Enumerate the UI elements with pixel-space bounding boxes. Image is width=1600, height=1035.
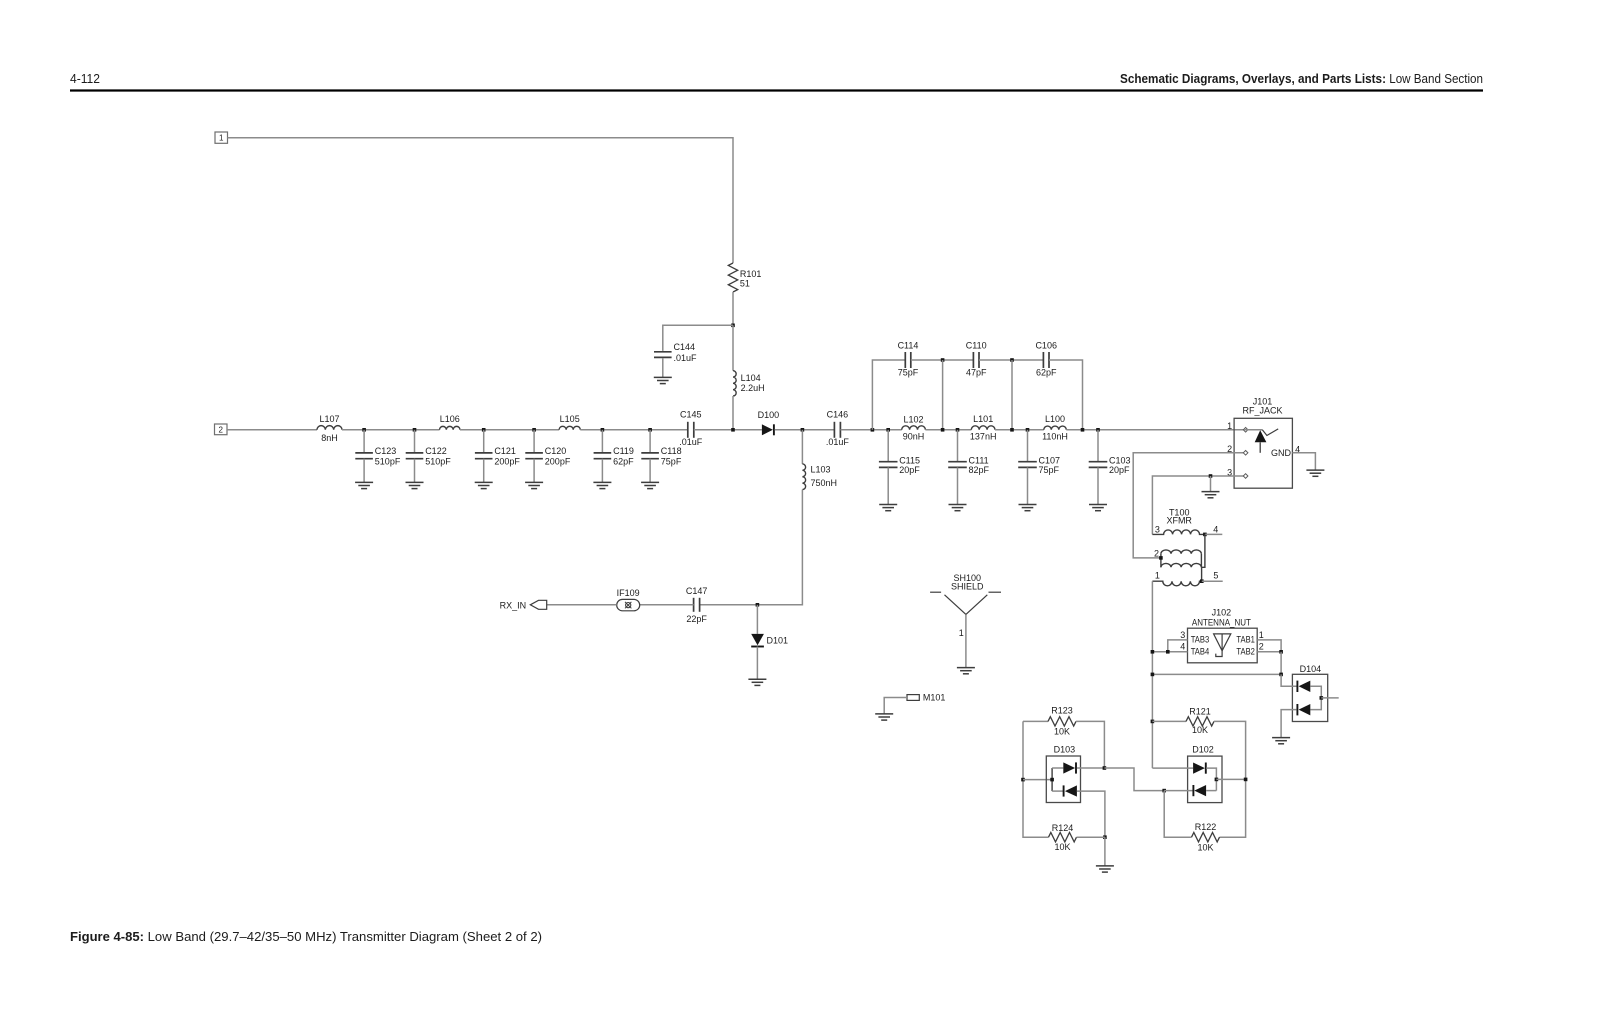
node C107 tap [1026,428,1030,432]
node main/branch C [1081,428,1085,432]
capacitor C146 [833,422,835,438]
node R122 left join [1162,789,1166,793]
wire [942,360,944,430]
wire [363,459,365,483]
svg-text:10K: 10K [1054,842,1070,852]
port RX_IN [530,600,546,609]
diode D103 top [1063,762,1075,773]
node pin 2 [1159,556,1163,560]
ground [748,678,766,680]
svg-text:C111: C111 [969,455,989,465]
wire [957,430,959,462]
wire [957,467,959,504]
node top branch B [1010,358,1014,362]
wire [1292,453,1315,470]
node TAB4 net [1151,650,1155,654]
capacitor C144 [654,351,672,353]
wire [840,429,901,431]
wire [1077,767,1105,769]
svg-text:10K: 10K [1197,843,1213,853]
wire [1066,429,1244,431]
wire [732,292,734,325]
ground [355,481,373,483]
svg-text:L107: L107 [319,414,339,424]
node D100/L103 junction [801,428,805,432]
ground [1202,491,1220,493]
svg-text:C118: C118 [661,446,682,456]
svg-text:D101: D101 [767,636,789,646]
capacitor C110 [972,352,974,368]
svg-text:L105: L105 [560,414,580,424]
capacitor C145 [687,422,689,438]
svg-text:.01uF: .01uF [679,437,703,447]
ground [1306,469,1324,471]
node top branch A [941,358,945,362]
capacitor C122 [406,452,424,454]
wire [1133,453,1244,558]
wire [887,467,889,504]
svg-text:8nH: 8nH [321,433,338,443]
node junction R101/C144/L104 [731,324,735,328]
svg-text:L102: L102 [903,414,923,424]
wire [911,359,974,361]
wire [663,325,733,351]
wire [1152,673,1281,675]
wire [1281,710,1297,738]
wire [227,429,317,431]
wire [756,647,758,680]
svg-text:1: 1 [219,134,224,143]
connector J101 box [1234,418,1292,488]
svg-text:C106: C106 [1035,341,1057,351]
svg-text:200pF: 200pF [545,456,571,466]
jack switch contact [1262,429,1278,436]
svg-text:22pF: 22pF [686,614,707,624]
capacitor C121 [475,452,493,454]
svg-text:1: 1 [1155,571,1160,581]
svg-text:L103: L103 [811,464,831,474]
pin 2 contact [1243,451,1248,456]
svg-text:C119: C119 [613,446,634,456]
svg-text:TAB2: TAB2 [1236,646,1255,656]
wire [1104,768,1164,791]
wire [979,359,1043,361]
connector 1 [215,132,228,143]
svg-text:L101: L101 [973,414,993,424]
resistor R121 [1186,717,1214,726]
ground [949,504,967,506]
wire [640,604,694,606]
capacitor C147 [693,598,695,612]
svg-text:4: 4 [1180,641,1185,651]
node D103/R123 join [1103,766,1107,770]
wire [1281,674,1297,686]
inductor L101 [971,426,995,430]
wire [700,490,803,605]
node pin3 ground tap [1209,474,1213,478]
wire [1049,360,1083,430]
wire [887,430,889,462]
node D101 tap [756,603,760,607]
svg-text:C107: C107 [1039,455,1061,465]
wire [601,430,603,453]
wire [1216,778,1245,780]
svg-text:2: 2 [218,425,223,434]
wire [1202,580,1223,582]
node antenna net right [1279,673,1283,677]
winding 2 right bracket [1200,554,1202,568]
svg-text:75pF: 75pF [898,368,919,378]
inductor L105 [559,426,580,430]
svg-text:3: 3 [1180,630,1185,640]
node R121/R122 junction [1244,778,1248,782]
wire [1104,837,1106,866]
svg-text:.01uF: .01uF [674,353,698,363]
svg-text:R101: R101 [740,269,762,279]
node C118 tap [648,428,652,432]
capacitor C106 [1042,352,1044,368]
inductor L106 [440,426,461,429]
svg-text:750nH: 750nH [811,478,838,488]
resistor R124 [1049,833,1077,842]
wire [1152,767,1193,769]
ground [879,504,897,506]
connector J102 box [1188,628,1258,663]
wire [1205,533,1222,535]
diode pack D104 box [1292,674,1327,721]
wire [1210,476,1212,492]
svg-text:M101: M101 [923,693,946,703]
node R121 tap [1151,720,1155,724]
svg-text:82pF: 82pF [969,465,990,475]
winding 1-5 [1152,581,1201,586]
wire [801,430,803,464]
diode pack D102 box [1188,756,1222,803]
svg-text:1: 1 [1227,421,1232,431]
svg-text:C122: C122 [425,446,447,456]
wire [1152,476,1244,534]
wire [1280,652,1282,675]
wire [1152,720,1186,722]
wire [1206,768,1216,791]
wire [1097,430,1099,462]
jack arrow [1244,429,1262,431]
svg-text:62pF: 62pF [613,456,634,466]
wire [1023,779,1052,781]
svg-text:J102: J102 [1212,607,1232,617]
wire [1164,791,1191,838]
wire [1164,790,1193,792]
wire [872,360,905,430]
wire [1257,651,1281,653]
node C123 tap [362,428,366,432]
diode pack D103 box [1046,756,1080,803]
diode D102 top [1193,763,1205,774]
wire [965,614,967,667]
svg-text:10K: 10K [1054,726,1070,736]
resistor R101 [728,263,737,292]
svg-text:10K: 10K [1192,725,1208,735]
svg-text:R121: R121 [1189,707,1211,717]
wire [601,459,603,483]
svg-text:510pF: 510pF [425,456,451,466]
svg-text:XFMR: XFMR [1166,516,1192,526]
svg-text:L106: L106 [440,414,460,424]
svg-text:R123: R123 [1051,706,1073,716]
header rule [70,89,1483,91]
ground [654,376,672,378]
ground [1019,504,1037,506]
ground [1272,737,1290,739]
svg-text:200pF: 200pF [494,456,520,466]
wire [1077,791,1105,837]
wire [649,459,651,483]
svg-text:4-112: 4-112 [70,71,100,86]
svg-text:L104: L104 [741,373,761,383]
wire [460,429,559,431]
wire [1023,720,1048,722]
svg-text:Figure 4-85: Low Band (29.7–42: Figure 4-85: Low Band (29.7–42/35–50 MHz… [70,929,542,944]
pin 3 contact [1243,474,1248,479]
svg-text:C147: C147 [686,586,708,596]
svg-text:C103: C103 [1109,455,1131,465]
svg-text:R122: R122 [1195,822,1217,832]
svg-text:C146: C146 [827,409,849,419]
wire [1097,467,1099,504]
node main/branch B [1010,428,1014,432]
svg-text:90nH: 90nH [903,431,925,441]
wire [732,325,734,370]
wire [649,430,651,453]
node pin 5 [1200,579,1204,583]
capacitor C114 [904,352,906,368]
winding interconnect lower [1201,567,1203,581]
node TAB3/TAB4 join [1166,650,1170,654]
svg-text:75pF: 75pF [1039,465,1060,475]
capacitor C103 [1089,461,1108,463]
capacitor C111 [948,461,967,463]
svg-text:D103: D103 [1054,745,1076,755]
svg-text:51: 51 [740,279,750,289]
svg-text:2: 2 [1259,641,1264,651]
svg-text:Schematic Diagrams, Overlays,: Schematic Diagrams, Overlays, and Parts … [1120,71,1483,86]
winding 2 row 1 [1161,550,1201,554]
svg-text:GND: GND [1271,448,1292,458]
svg-text:5: 5 [1213,570,1218,580]
svg-text:ANTENNA_NUT: ANTENNA_NUT [1192,617,1251,627]
inductor L103 [802,464,805,490]
wire [1310,686,1321,709]
node C121 tap [482,428,486,432]
svg-text:137nH: 137nH [970,431,997,441]
inductor L100 [1044,426,1067,430]
node pin 4 [1203,533,1207,537]
ferrite bead IF109 [617,599,640,610]
wire [995,429,1044,431]
ground [1089,504,1107,506]
wire [925,429,971,431]
ground [525,481,543,483]
svg-text:R124: R124 [1052,823,1074,833]
capacitor C123 [355,452,373,454]
winding interconnect [1201,534,1205,567]
wire [363,430,365,453]
svg-text:IF109: IF109 [617,588,640,598]
svg-text:RX_IN: RX_IN [500,600,527,610]
antenna symbol [1214,634,1231,651]
node C120 tap [532,428,536,432]
ground [406,481,424,483]
inductor L107 [317,426,342,430]
node R124 join [1103,835,1107,839]
wire [1076,721,1104,768]
wire [228,138,734,263]
wire [414,430,416,453]
capacitor C120 [525,452,543,454]
wire [533,430,535,453]
node TAB1/TAB2 join [1279,650,1283,654]
svg-text:62pF: 62pF [1036,368,1057,378]
wire [756,605,758,634]
shield SH100 [930,591,941,593]
wire [662,358,664,377]
resistor R122 [1192,833,1220,842]
wire [1257,640,1281,652]
ground [475,481,493,483]
svg-text:C120: C120 [545,446,567,456]
capacitor C107 [1018,461,1037,463]
svg-text:75pF: 75pF [661,456,682,466]
svg-text:D104: D104 [1300,664,1322,674]
svg-text:4: 4 [1213,524,1218,534]
wire [1052,790,1064,792]
wire [694,429,762,431]
wire [342,429,440,431]
ground [1096,865,1114,867]
svg-text:C115: C115 [899,455,920,465]
svg-text:C145: C145 [680,409,702,419]
diode D100 [762,424,773,435]
capacitor C119 [594,452,612,454]
node C122 tap [413,428,417,432]
svg-text:C121: C121 [494,446,516,456]
wire [775,429,835,431]
wire [1152,651,1187,653]
svg-text:TAB3: TAB3 [1191,634,1210,644]
wire [533,459,535,483]
svg-text:D100: D100 [758,410,780,420]
diode D102 bottom [1192,785,1194,796]
svg-text:C144: C144 [674,342,696,352]
diode D101 [751,634,764,645]
svg-text:C114: C114 [898,341,919,351]
wire [1168,640,1188,652]
wire [1011,360,1013,430]
diode D103 bracket [1051,768,1053,791]
node D103 bracket tap [1050,778,1054,782]
ground [641,481,659,483]
wire [1321,697,1338,699]
svg-text:TAB4: TAB4 [1191,646,1210,656]
svg-text:110nH: 110nH [1042,431,1068,441]
diode D104 bottom [1296,704,1298,715]
wire [1077,836,1105,838]
wire [414,459,416,483]
wire [1023,721,1049,837]
svg-text:20pF: 20pF [899,465,920,475]
wire [483,459,485,483]
svg-text:RF_JACK: RF_JACK [1242,405,1282,415]
node L104 junction [731,428,735,432]
node C115 tap [886,428,890,432]
diode D103 bottom [1063,785,1065,796]
svg-text:1: 1 [959,628,964,638]
wire [884,698,907,714]
node C103 tap [1096,428,1100,432]
svg-text:.01uF: .01uF [826,437,850,447]
svg-text:C123: C123 [375,446,397,456]
inductor L104 [733,371,736,396]
capacitor C118 [641,452,659,454]
svg-text:TAB1: TAB1 [1236,634,1255,644]
svg-text:L100: L100 [1045,414,1065,424]
node C119 tap [601,428,605,432]
winding 3-4 [1152,530,1205,534]
wire [1052,767,1063,769]
node antenna net left [1151,673,1155,677]
svg-text:20pF: 20pF [1109,465,1130,475]
inductor L102 [902,426,926,430]
jumper M101 [907,695,919,701]
resistor R123 [1048,717,1076,726]
wire [732,396,734,430]
node C114 branch left [871,428,875,432]
wire [1027,467,1029,504]
svg-text:3: 3 [1155,524,1160,534]
svg-text:47pF: 47pF [966,368,987,378]
wire [580,429,688,431]
wire [1151,581,1153,768]
wire [1027,430,1029,462]
wire [1206,790,1216,792]
connector 2 [215,424,228,435]
node D103 left tap [1021,778,1025,782]
svg-text:1: 1 [1259,630,1264,640]
svg-text:SHIELD: SHIELD [951,581,984,591]
node main/branch A [941,428,945,432]
node D102 common [1215,778,1219,782]
node C111 tap [956,428,960,432]
svg-text:2.2uH: 2.2uH [741,383,765,393]
svg-text:D102: D102 [1192,745,1214,755]
capacitor C115 [879,461,898,463]
ground [875,713,893,715]
svg-text:510pF: 510pF [375,456,401,466]
svg-text:C110: C110 [966,341,987,351]
node D104 common [1320,696,1324,700]
winding 2 row 2 [1161,563,1201,567]
wire [547,604,617,606]
ground [957,667,975,669]
pin 1 contact [1243,428,1248,433]
svg-text:2: 2 [1154,549,1159,559]
wire [1214,721,1246,837]
diode D104 top [1296,681,1298,692]
wire [483,430,485,453]
ground [593,481,611,483]
winding 2 left bracket [1160,554,1162,568]
